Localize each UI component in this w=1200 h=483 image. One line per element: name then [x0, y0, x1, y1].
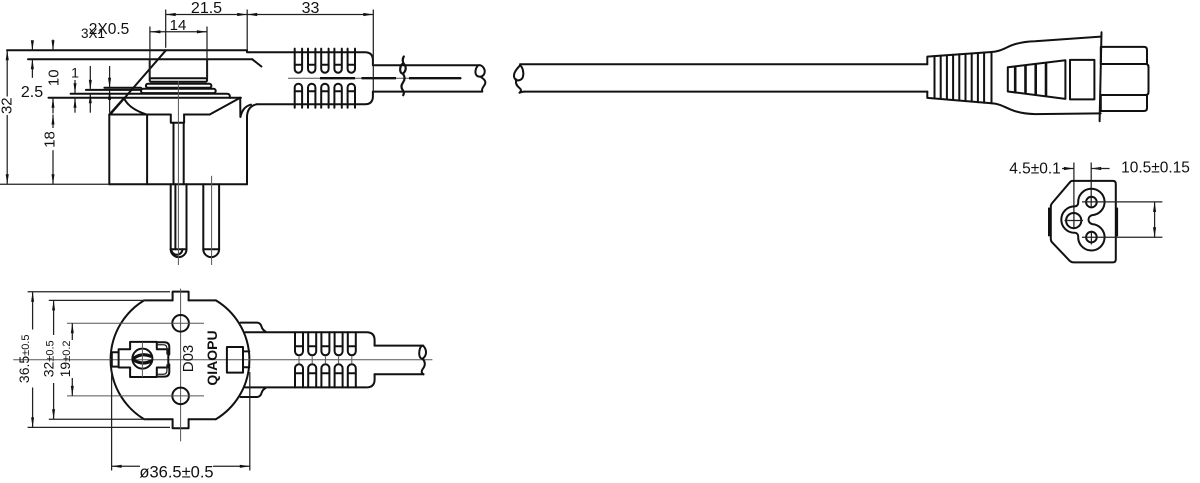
c5 pin hole top — [1086, 197, 1097, 208]
ext line 33 right — [372, 10, 374, 93]
gasket ring 1 — [150, 78, 208, 82]
front rib bottom 2 — [308, 364, 316, 387]
right vertical dim arrow up — [1153, 202, 1156, 212]
right vertical dim line — [1154, 202, 1156, 237]
ring dim col1 arrow up — [74, 98, 77, 108]
c5 relief rib 7 — [971, 53, 973, 101]
pin 1 inner left — [173, 123, 175, 185]
dim 4.5 leader right — [1091, 168, 1109, 170]
front horizontal centerline — [13, 359, 432, 361]
front top key tab — [173, 292, 189, 301]
cable 1 centerline thick seg3 — [409, 77, 461, 79]
dim 19 line — [71, 323, 73, 396]
earth clip hook top — [157, 342, 170, 354]
c5 relief rib 6 — [965, 54, 967, 101]
ring dim col2 arrow up — [89, 93, 92, 103]
dim 2.5 arrow down — [31, 40, 34, 50]
right shoulder chamfer — [210, 98, 241, 115]
dim 18 upper seg — [52, 115, 54, 129]
crosshair top hole horizontal — [1082, 201, 1162, 203]
dim 32b arrow up — [52, 300, 55, 310]
svg-text:14: 14 — [170, 17, 187, 34]
pin 1 left edge — [170, 184, 172, 249]
c5 relief rib 8 — [977, 53, 979, 102]
pin 1 tip chord — [171, 248, 187, 250]
svg-text:32: 32 — [0, 97, 16, 114]
earth clip cross plate — [119, 342, 169, 377]
front grommet bottom edge — [245, 374, 374, 387]
plug body inner wall — [146, 115, 148, 185]
c5 grip groove 1 — [1014, 66, 1017, 92]
collar bottom line — [241, 388, 266, 397]
body bottom extension line — [0, 183, 109, 185]
svg-text:QIAOPU: QIAOPU — [204, 330, 220, 385]
dim 32b arrow down — [52, 409, 55, 419]
c5 face plate line — [1100, 32, 1102, 121]
gasket ring 2 — [146, 84, 212, 88]
c5 pin hole left — [1066, 213, 1081, 228]
cable 1 centerline thick seg2 — [362, 77, 397, 79]
front bottom flat — [144, 418, 216, 420]
svg-text:21.5: 21.5 — [191, 0, 222, 17]
dim 36.5 line — [32, 292, 34, 428]
front rib center dash 5 — [351, 356, 353, 363]
dim 19 arrow down — [71, 386, 74, 396]
dim 21.5 arrow left — [166, 13, 176, 16]
c5 grip panel rect — [1070, 60, 1094, 100]
clip centerline — [141, 342, 143, 377]
dim 14 arrow right — [197, 30, 207, 33]
front bottom key tab — [173, 419, 189, 428]
c5 body top edge — [992, 37, 1101, 52]
base plate top edge — [71, 94, 230, 98]
svg-text:2.5: 2.5 — [21, 84, 43, 101]
front right tab link bottom — [243, 366, 249, 368]
grommet rib bottom 1 — [295, 84, 302, 108]
ring dim col2 upper — [89, 66, 91, 90]
plug face top line L3 — [49, 97, 241, 99]
pin 1 bore line — [174, 184, 176, 249]
front right tab rect — [227, 347, 243, 373]
front circle outline — [111, 300, 250, 419]
dim 32b line — [53, 300, 55, 419]
plug body right edge with corner — [247, 104, 257, 184]
c5 relief rib 3 — [946, 55, 948, 99]
plug body top edge L4 left — [109, 114, 170, 116]
grommet rib top 1 — [295, 49, 302, 73]
gasket flange line b — [86, 89, 141, 91]
c5 front right gasket bar — [1116, 208, 1119, 237]
cable 1 top line — [373, 64, 478, 66]
ext line 21.5 left — [165, 10, 167, 48]
ring dim col3 arrow up — [108, 90, 111, 100]
dim 4.5 leader left — [1062, 168, 1074, 170]
dim 36.5 arrow up — [31, 292, 34, 302]
dim 36.5 arrow down — [31, 417, 34, 427]
c5 relief rib 1 — [934, 56, 936, 98]
dim 10 lower seg — [52, 98, 54, 114]
earth clip left tab — [112, 352, 119, 366]
front rib top 5 — [348, 332, 356, 355]
c5 pin hole bottom — [1086, 232, 1097, 243]
left shoulder chamfer — [109, 98, 124, 115]
dim dia arrow right — [240, 465, 250, 468]
dim 10 arrow down — [52, 40, 55, 50]
grommet rib bottom 4 — [334, 84, 341, 108]
right shoulder vertical — [239, 98, 241, 117]
pin boss notch — [171, 115, 184, 123]
c5 nose top band — [1101, 47, 1147, 64]
cable 2 start curl — [514, 66, 525, 93]
pin 2 right edge — [218, 184, 220, 249]
front rib center dash 3 — [324, 356, 326, 363]
front rib bottom 3 — [321, 364, 329, 387]
earth clip hook bottom — [157, 364, 170, 376]
c5 nose bottom band — [1101, 95, 1147, 111]
front pin hole bottom — [172, 388, 189, 405]
front grommet top edge — [245, 332, 374, 345]
c5 relief rib 5 — [958, 54, 960, 100]
dim 2.5 arrow up — [31, 59, 34, 69]
pin 1 right edge — [186, 184, 188, 249]
cable 1 centerline thin — [288, 77, 462, 79]
c5 cloverleaf well outline — [1061, 189, 1104, 251]
cable 2 bottom line — [525, 91, 928, 93]
front vertical centerline — [180, 289, 182, 442]
c5 strain relief outline — [927, 52, 991, 103]
dim 18 arrow down — [52, 174, 55, 184]
dim 2.5 upper seg — [31, 41, 33, 50]
ring dim col3 upper — [109, 66, 111, 88]
svg-text:10.5±0.15: 10.5±0.15 — [1121, 160, 1190, 177]
earth contact lower arc — [134, 360, 151, 363]
front rib top 3 — [321, 332, 329, 355]
front cable end curl — [419, 346, 426, 375]
plug body left edge — [108, 115, 110, 185]
ring dim col2 lower — [89, 93, 91, 112]
dim line 21.5 — [166, 14, 248, 16]
ext dia left — [111, 371, 113, 471]
svg-text:19±0.2: 19±0.2 — [57, 340, 73, 377]
pin 1 inner tip arc — [171, 249, 182, 255]
plug boss right wall — [206, 59, 208, 78]
cable 1 centerline thick seg1 — [320, 77, 355, 79]
earth clip hook bottom inner — [157, 364, 167, 374]
cable 1 bottom line — [373, 91, 482, 93]
plug cover rear chamfer — [252, 59, 261, 66]
pin 1 centerline — [177, 81, 179, 265]
earth sleeve circle — [132, 349, 152, 369]
ext line 21.5/33 shared — [246, 10, 248, 51]
gasket flange line a — [104, 87, 141, 89]
svg-text:D03: D03 — [180, 345, 197, 373]
plug boss left wall — [149, 59, 151, 78]
dim 33 arrow left — [247, 13, 257, 16]
pin 1 tip arc — [171, 249, 187, 257]
svg-text:32±0.5: 32±0.5 — [41, 340, 57, 377]
cable 2 top line — [520, 63, 927, 65]
svg-text:1: 1 — [71, 65, 79, 81]
plug body bottom edge — [109, 183, 247, 185]
hole bottom crosshair — [67, 395, 204, 397]
ext line top hole — [1090, 163, 1092, 208]
dim dia line left — [112, 465, 140, 467]
dim 32 line lower — [6, 115, 8, 184]
ring dim col1 upper — [74, 80, 76, 93]
pin 2 tip arc — [203, 249, 219, 257]
front right tab link top — [243, 350, 249, 352]
plug cover top line L1 — [7, 49, 247, 51]
grommet rib top 3 — [321, 49, 328, 73]
dim 10 arrow up — [52, 98, 55, 108]
gasket ring 3 — [141, 89, 216, 93]
dim 32 arrow up — [6, 50, 9, 60]
front rib bottom 4 — [335, 364, 343, 387]
svg-text:ø36.5±0.5: ø36.5±0.5 — [139, 463, 213, 481]
front rib center dash 2 — [311, 356, 313, 363]
c5 relief rib 2 — [940, 56, 942, 99]
ring dim col3 arrow down — [108, 78, 111, 88]
c5 nose middle band — [1101, 64, 1149, 95]
front rib bottom 1 — [295, 364, 303, 387]
grommet rib top 2 — [308, 49, 315, 73]
diagonal leader line — [110, 50, 166, 114]
cable 1 end curl — [475, 65, 485, 91]
ring dim col2 arrow down — [89, 80, 92, 90]
pin 2 centerline — [211, 176, 213, 265]
plug cover step to grommet — [247, 50, 250, 52]
grommet rib bottom 2 — [308, 84, 315, 108]
ring dim col1 lower — [74, 98, 76, 113]
svg-text:18: 18 — [42, 131, 59, 148]
dim 21.5 arrow right — [237, 13, 247, 16]
svg-text:4.5±0.1: 4.5±0.1 — [1009, 161, 1061, 178]
c5 grip well outline — [1008, 60, 1066, 99]
crosshair bottom hole horizontal — [1082, 236, 1162, 238]
ring dim col1 arrow down — [74, 83, 77, 93]
svg-text:33: 33 — [302, 0, 320, 17]
cable 1 break squiggle — [400, 57, 406, 96]
c5 front body outline — [1051, 181, 1116, 263]
grommet rib bottom 5 — [348, 84, 355, 108]
pin 2 tip chord — [203, 248, 219, 250]
grommet rib top 5 — [348, 49, 355, 73]
ext line left hole — [1073, 163, 1075, 229]
dim 18 lower seg — [52, 150, 54, 184]
crosshair bottom hole vertical — [1090, 231, 1092, 245]
ext 36.5 bottom — [28, 426, 170, 428]
grommet top edge — [250, 52, 373, 65]
c5 front left gasket bar — [1048, 208, 1051, 237]
ext line 14 left — [149, 27, 151, 79]
c5 grip groove 2 — [1024, 65, 1027, 94]
dim dia line right — [213, 465, 250, 467]
svg-text:3X1: 3X1 — [81, 26, 105, 41]
front pin hole top — [172, 315, 189, 332]
c5 relief rib 4 — [952, 55, 954, 100]
hole top crosshair — [67, 322, 204, 324]
dim 18 arrow up — [52, 115, 55, 125]
dim 32 arrow down — [6, 174, 9, 184]
dim 33 arrow right — [363, 13, 373, 16]
ext 32b bottom — [49, 418, 146, 420]
plug body top edge L4 right — [184, 114, 210, 116]
dim 14 arrow left — [150, 30, 160, 33]
boot curl inner curve — [240, 105, 251, 117]
neck concave curve — [124, 98, 146, 114]
svg-text:10: 10 — [45, 69, 62, 86]
pin 2 left edge — [202, 184, 204, 249]
ext 32b top — [49, 299, 146, 301]
grommet rib bottom 3 — [321, 84, 328, 108]
front cable bottom line — [375, 373, 424, 375]
front rib top 2 — [308, 332, 316, 355]
earth clip hook top inner — [157, 345, 167, 355]
ext line 14 right — [206, 27, 208, 79]
c5 body bottom edge — [992, 103, 1101, 114]
dim 2.5 lower seg — [31, 59, 33, 78]
front rib top 1 — [295, 332, 303, 355]
dim 32 line upper — [6, 50, 8, 96]
front top flat — [144, 299, 216, 301]
c5 grip groove 4 — [1045, 63, 1048, 97]
plug cover inner line L2 — [28, 58, 252, 60]
c5 relief rib 9 — [983, 53, 985, 103]
ring dim col3 lower — [109, 90, 111, 113]
dim 10 upper seg — [52, 40, 54, 51]
svg-text:36.5±0.5: 36.5±0.5 — [16, 335, 32, 384]
grommet rib top 4 — [334, 49, 341, 73]
dim 4.5 arrow left — [1091, 167, 1101, 170]
dim 4.5 arrow right — [1064, 167, 1074, 170]
front rib center dash 4 — [338, 356, 340, 363]
front cable top line — [375, 345, 423, 347]
dim line 33 — [247, 14, 373, 16]
ext 36.5 top — [28, 291, 170, 293]
crosshair left hole horizontal — [1065, 220, 1084, 222]
grommet bottom edge — [257, 92, 373, 105]
front rib top 4 — [335, 332, 343, 355]
right vertical dim arrow down — [1153, 227, 1156, 237]
front rib bottom 5 — [348, 364, 356, 387]
c5 grip groove 3 — [1034, 64, 1037, 95]
pin 1 inner right — [183, 123, 185, 185]
dim 19 arrow up — [71, 323, 74, 333]
dim dia arrow left — [112, 465, 122, 468]
dim line 14 — [150, 31, 207, 33]
ext dia right — [249, 372, 251, 471]
front rib center dash 1 — [298, 356, 300, 363]
earth contact upper arc — [135, 355, 151, 358]
collar top line — [241, 323, 266, 332]
